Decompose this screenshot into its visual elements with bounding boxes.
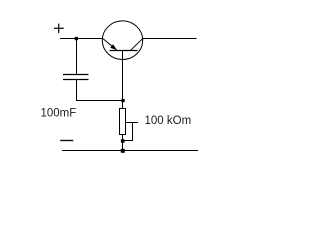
transistor Q1 collector diagonal: [131, 38, 144, 50]
wire resistor bottom lead: [122, 135, 124, 152]
wire tap drop: [123, 123, 133, 141]
node minus terminal: [60, 140, 73, 142]
resistor R1 body: [120, 109, 126, 135]
wire capacitor top lead: [76, 39, 78, 75]
wire top supply right segment (collector output): [143, 38, 197, 40]
svg-text:100mF: 100mF: [41, 108, 77, 120]
resistor R1 tap stub: [126, 122, 138, 124]
capacitor C1 100mF: [63, 75, 89, 80]
wire bottom rail: [62, 150, 198, 152]
node junction bottom rail: [121, 149, 125, 153]
node junction base/capacitor: [121, 99, 124, 102]
node junction top (wire to capacitor): [75, 37, 78, 40]
wire base lead down from transistor: [122, 51, 124, 110]
transistor Q1 body circle: [102, 21, 142, 60]
wire top supply left segment: [60, 38, 103, 40]
node plus terminal: [54, 24, 64, 33]
node junction tap: [121, 139, 125, 143]
wire capacitor bottom lead: [77, 80, 124, 101]
transistor Q1 emitter diagonal with arrow: [103, 38, 117, 50]
transistor Q1 base bar: [110, 50, 138, 52]
svg-text:100 kOm: 100 kOm: [145, 115, 192, 127]
